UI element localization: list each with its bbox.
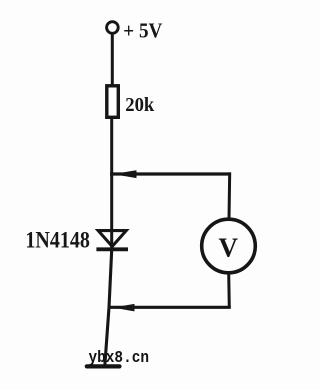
- svg-text:V: V: [219, 232, 239, 262]
- resistor R1 20k: [107, 86, 119, 118]
- wire: diode to bottom terminal: [105, 250, 112, 365]
- +5V terminal: [107, 22, 119, 34]
- wire: right drop to voltmeter top: [228, 172, 232, 219]
- svg-text:ybx8.cn: ybx8.cn: [89, 349, 150, 368]
- svg-text:1N4148: 1N4148: [25, 228, 90, 253]
- wire: terminal to resistor: [111, 33, 114, 86]
- svg-text:20k: 20k: [125, 94, 155, 116]
- wire: upper horizontal probe wire: [110, 172, 231, 175]
- voltmeter V: [202, 219, 256, 273]
- arrowhead: lower probe into node: [113, 304, 135, 312]
- svg-text:+ 5V: + 5V: [123, 19, 162, 43]
- wire: voltmeter bottom stub: [227, 273, 231, 308]
- bottom terminal bar (ground): [87, 364, 120, 368]
- wire: resistor to diode (through diode body): [110, 117, 113, 251]
- diode cathode bar: [96, 247, 128, 251]
- wire: lower horizontal probe wire: [109, 306, 231, 309]
- diode D1 1N4148 triangle: [98, 231, 126, 247]
- arrowhead: upper probe into node: [113, 170, 137, 178]
